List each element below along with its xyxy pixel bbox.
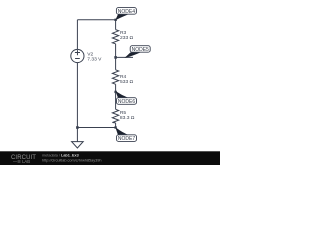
svg-text:7.33 V: 7.33 V	[87, 56, 102, 62]
metadata text	[42, 154, 102, 163]
wire between node NODE6 and R5	[115, 91, 117, 109]
junction dot at ground node	[76, 126, 79, 129]
footer bar	[0, 151, 220, 165]
node NODE5 flag	[116, 46, 151, 58]
label R4 533 ohm	[120, 74, 134, 85]
wire chain top segment	[115, 20, 117, 30]
voltage source V2	[71, 49, 84, 62]
junction dot at node NODE5	[114, 56, 117, 59]
svg-text:—☰ LAB: —☰ LAB	[13, 159, 30, 164]
junction dot at node A top	[114, 19, 116, 21]
node NODE7 flag	[115, 127, 136, 142]
wire left vertical above V2	[76, 20, 78, 50]
svg-text:metadata / Lab1_Ex3: metadata / Lab1_Ex3	[42, 154, 79, 158]
svg-text:NODE6: NODE6	[118, 99, 135, 105]
svg-text:NODE7: NODE7	[118, 136, 135, 142]
junction dot at node NODE7	[114, 126, 116, 128]
svg-text:NODE4: NODE4	[118, 9, 135, 15]
wire top horizontal from V2 to node A	[77, 19, 115, 21]
svg-text:533 Ω: 533 Ω	[120, 79, 134, 85]
resistor R4	[112, 70, 118, 85]
svg-text:83.3 Ω: 83.3 Ω	[120, 115, 135, 121]
node NODE6 flag	[115, 91, 136, 105]
resistor R5	[112, 109, 118, 123]
wire between R4 and node NODE6	[115, 84, 117, 91]
label R3 233 ohm	[120, 30, 134, 41]
svg-text:http://circuitlab.com/c/hrwh85: http://circuitlab.com/c/hrwh85ay39h	[42, 158, 102, 162]
wire between R3 and node NODE5	[115, 44, 117, 58]
node NODE4 flag	[115, 8, 136, 21]
junction dot at node NODE6	[114, 91, 116, 93]
CircuitLab logo	[11, 155, 36, 164]
label R5 83.3 ohm	[120, 110, 135, 121]
wire left vertical below V2	[76, 63, 78, 128]
svg-text:NODE5: NODE5	[132, 47, 149, 53]
wire between node NODE5 and R4	[115, 57, 117, 69]
ground	[72, 128, 84, 149]
svg-text:233 Ω: 233 Ω	[120, 35, 134, 41]
wire between R5 and node NODE7	[115, 123, 117, 128]
wire bottom horizontal to ground node	[77, 127, 115, 129]
label V2 7.33 V	[87, 51, 102, 62]
resistor R3	[112, 30, 118, 44]
